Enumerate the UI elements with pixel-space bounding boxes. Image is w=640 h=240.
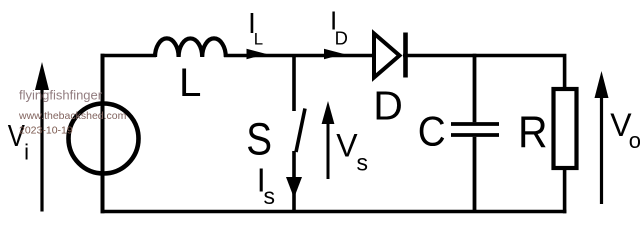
current arrow ID (324, 49, 344, 60)
svg-text:i: i (24, 140, 29, 165)
svg-text:s: s (264, 183, 276, 209)
wire capacitor branch upper (473, 54, 477, 123)
svg-text:S: S (246, 114, 272, 165)
wire left vertical (101, 54, 105, 214)
svg-text:2023-10-19: 2023-10-19 (19, 125, 73, 137)
svg-text:flyingfishfinger: flyingfishfinger (19, 88, 103, 103)
svg-text:D: D (373, 83, 403, 129)
diode D1 (374, 34, 400, 78)
current arrow IL (247, 49, 267, 60)
wire bottom rail (101, 210, 567, 214)
wire top rail left segment (101, 54, 157, 58)
resistor R1 (554, 89, 577, 168)
svg-text:s: s (357, 150, 369, 176)
wire top rail right segment (403, 56, 565, 91)
wire capacitor branch lower (473, 137, 477, 213)
svg-text:R: R (518, 107, 548, 157)
arrow Vo (600, 96, 603, 204)
current arrow IS head (286, 177, 302, 198)
wire resistor branch lower (563, 167, 567, 213)
svg-text:www.thebackshed.com: www.thebackshed.com (18, 110, 127, 122)
svg-text:C: C (418, 107, 446, 155)
inductor L (155, 38, 226, 57)
switch S1 lower shaft (292, 151, 296, 213)
capacitor C1 plate top (451, 122, 499, 126)
arrow Vs (327, 122, 330, 179)
voltage source V1 (69, 104, 139, 174)
switch S1 upper stub (292, 54, 296, 111)
svg-text:V: V (336, 128, 358, 164)
svg-text:o: o (629, 128, 640, 153)
svg-text:L: L (254, 30, 263, 49)
svg-text:L: L (179, 60, 201, 105)
arrow Vi (40, 88, 43, 212)
switch S1 blade (296, 109, 305, 153)
capacitor C1 plate bottom (451, 133, 499, 137)
wire top rail middle segment (224, 54, 376, 58)
svg-text:D: D (335, 28, 348, 49)
